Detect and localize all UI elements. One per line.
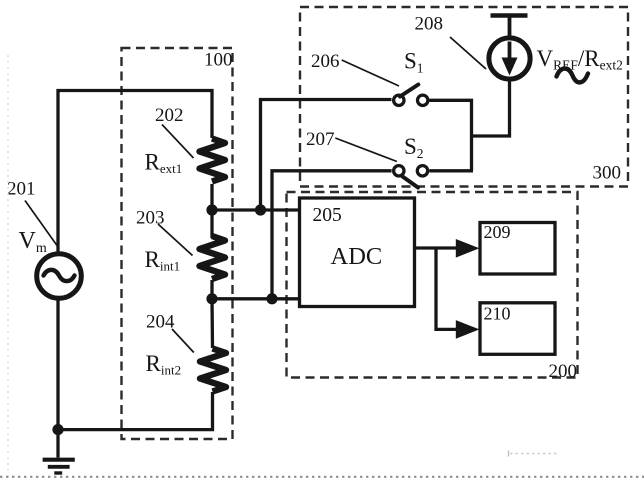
node junction ground <box>52 424 63 435</box>
svg-text:207: 207 <box>306 129 335 150</box>
wire Rext1 to node row1 <box>210 184 213 211</box>
wire tap up to switch S2 <box>272 171 392 299</box>
node junction Rext1/Rint1 <box>206 204 217 215</box>
wire node row2 to ADC <box>211 297 300 300</box>
switch S2 207 <box>394 166 428 188</box>
switch S1 206 <box>394 85 428 106</box>
resistor Rext1 202 <box>200 139 226 182</box>
pointer line 207 <box>335 138 397 162</box>
wire branch down <box>436 248 459 329</box>
arrow to 209 <box>456 239 480 258</box>
ADC box 205 <box>300 198 415 307</box>
pointer line 208 <box>450 37 486 69</box>
node junction tap S2 <box>266 293 277 304</box>
dashed box 200 <box>287 192 578 378</box>
dashed box 100 <box>122 48 233 439</box>
node junction Rint1/Rint2 <box>206 293 217 304</box>
resistor Rint1 203 <box>200 236 226 279</box>
svg-text:210: 210 <box>484 304 511 324</box>
wire S1 right to common <box>430 100 472 171</box>
pointer line 201 <box>25 201 57 246</box>
pointer line 204 <box>172 329 194 353</box>
svg-text:206: 206 <box>311 51 340 72</box>
wire node row1 to Rint1 <box>210 210 213 238</box>
svg-text:202: 202 <box>155 105 184 126</box>
pointer line 203 <box>158 224 193 256</box>
ground <box>43 430 75 473</box>
svg-text:100: 100 <box>204 50 233 71</box>
source Vm 201 symbol <box>37 254 82 299</box>
squiggle under REF <box>557 68 589 82</box>
wire tap up to switch S1 <box>261 100 392 211</box>
svg-text:201: 201 <box>7 179 36 200</box>
svg-text:ADC: ADC <box>331 243 383 270</box>
svg-text:209: 209 <box>484 222 511 242</box>
block 209 <box>480 223 555 275</box>
wire common to current source <box>472 78 510 136</box>
wire source top to Rext1 <box>58 91 212 253</box>
svg-text:204: 204 <box>146 312 175 333</box>
wire Rint1 to node row2 <box>210 280 213 299</box>
current source 208 <box>489 16 530 80</box>
pointer line 202 <box>162 125 194 159</box>
node junction tap S1 <box>255 204 266 215</box>
svg-text:200: 200 <box>549 361 578 382</box>
wire S2 right to common <box>429 169 473 172</box>
arrow to 210 <box>456 320 480 339</box>
wire node row2 to Rint2 <box>210 299 214 348</box>
wire source bottom <box>56 300 59 430</box>
svg-text:205: 205 <box>313 205 342 226</box>
dashed box 300 <box>300 7 628 187</box>
svg-text:208: 208 <box>415 14 444 35</box>
svg-text:300: 300 <box>593 163 622 184</box>
wire Rint2 bottom to ground rail <box>58 392 213 430</box>
wire ADC output <box>415 246 460 249</box>
wire node row1 to ADC <box>211 208 300 211</box>
pointer line 206 <box>342 60 399 86</box>
block 210 <box>480 303 555 355</box>
resistor Rint2 204 <box>200 349 226 392</box>
